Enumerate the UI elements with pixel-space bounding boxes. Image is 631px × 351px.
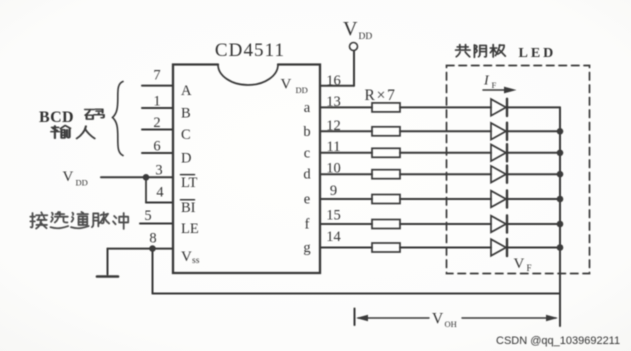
svg-text:b: b — [303, 124, 310, 140]
svg-text:9: 9 — [330, 183, 337, 199]
svg-text:C: C — [181, 127, 191, 143]
svg-text:13: 13 — [326, 94, 341, 110]
svg-text:BCD: BCD — [39, 109, 74, 126]
svg-text:V: V — [514, 256, 525, 272]
svg-text:12: 12 — [326, 118, 341, 134]
svg-text:1: 1 — [153, 94, 160, 110]
svg-text:LED: LED — [519, 46, 557, 61]
svg-text:D: D — [181, 151, 191, 167]
svg-text:LE: LE — [181, 221, 199, 237]
svg-text:DD: DD — [359, 32, 373, 42]
svg-text:7: 7 — [153, 67, 160, 83]
svg-text:a: a — [304, 100, 311, 116]
svg-text:V: V — [181, 249, 192, 265]
svg-text:V: V — [63, 169, 74, 185]
svg-text:A: A — [181, 83, 192, 99]
svg-text:DD: DD — [76, 178, 88, 188]
svg-text:14: 14 — [326, 229, 341, 245]
svg-text:F: F — [527, 263, 532, 273]
svg-text:V: V — [343, 18, 358, 40]
svg-text:f: f — [305, 217, 310, 233]
svg-text:B: B — [181, 106, 191, 122]
svg-text:4: 4 — [156, 185, 164, 201]
svg-text:5: 5 — [144, 208, 151, 224]
svg-text:R×7: R×7 — [365, 87, 397, 104]
svg-text:c: c — [304, 145, 310, 161]
svg-text:e: e — [304, 192, 310, 208]
svg-text:CSDN @qq_1039692211: CSDN @qq_1039692211 — [496, 335, 620, 347]
svg-text:V: V — [432, 311, 444, 328]
svg-text:CD4511: CD4511 — [215, 40, 285, 61]
svg-text:OH: OH — [445, 319, 457, 329]
svg-text:BI: BI — [181, 200, 196, 216]
svg-text:V: V — [281, 77, 292, 93]
svg-text:15: 15 — [326, 208, 341, 224]
svg-text:g: g — [303, 240, 310, 256]
svg-text:ss: ss — [192, 256, 200, 266]
svg-text:16: 16 — [326, 73, 341, 89]
svg-text:d: d — [303, 167, 311, 183]
svg-text:2: 2 — [153, 115, 160, 131]
svg-text:F: F — [492, 80, 497, 90]
svg-text:10: 10 — [326, 160, 341, 176]
svg-text:DD: DD — [296, 85, 308, 95]
svg-text:11: 11 — [327, 139, 341, 155]
svg-text:LT: LT — [181, 175, 198, 191]
svg-text:3: 3 — [155, 163, 162, 179]
svg-text:8: 8 — [149, 230, 156, 246]
svg-text:6: 6 — [153, 139, 160, 155]
